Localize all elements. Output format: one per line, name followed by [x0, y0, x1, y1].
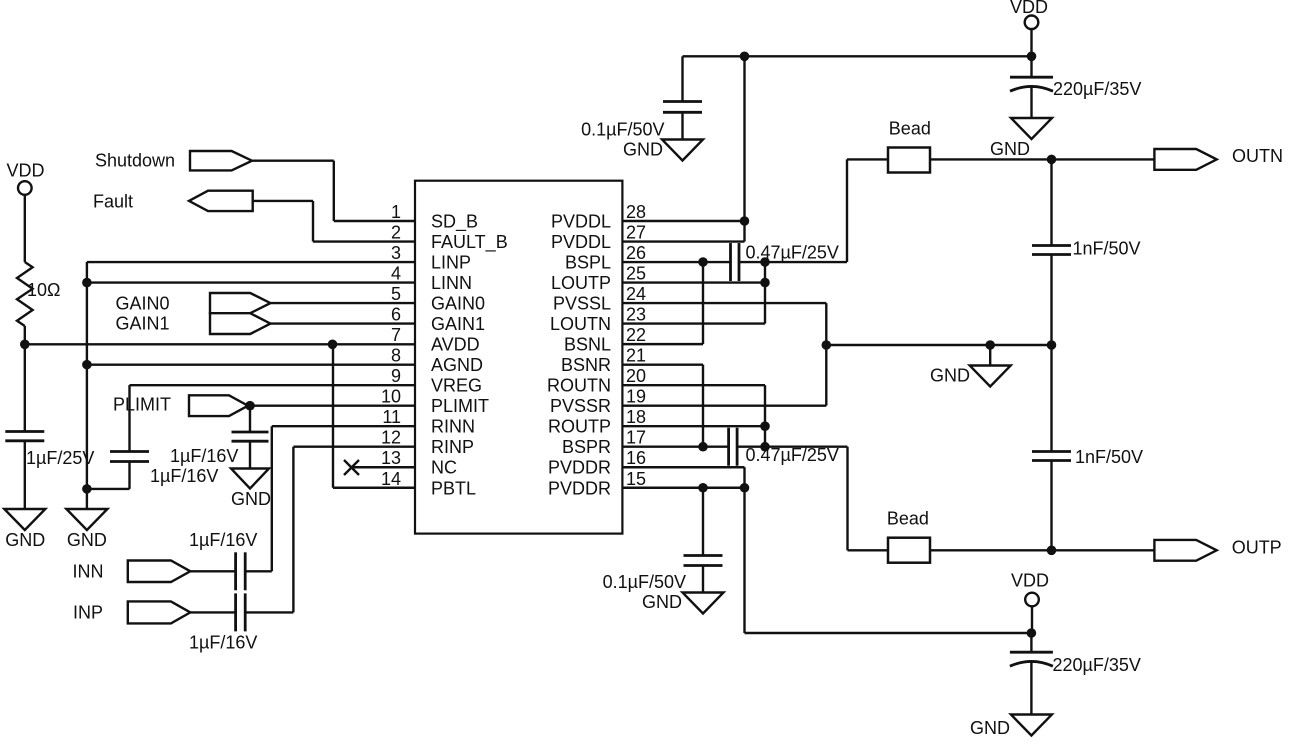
svg-text:GAIN1: GAIN1	[116, 314, 170, 334]
svg-text:PVSSR: PVSSR	[550, 396, 611, 416]
svg-text:1µF/16V: 1µF/16V	[170, 446, 238, 466]
svg-text:Fault: Fault	[93, 192, 133, 212]
svg-text:Shutdown: Shutdown	[95, 151, 175, 171]
svg-text:NC: NC	[431, 458, 457, 478]
svg-text:GAIN0: GAIN0	[116, 294, 170, 314]
svg-text:28: 28	[626, 202, 646, 222]
svg-text:11: 11	[382, 407, 401, 427]
svg-text:AVDD: AVDD	[431, 335, 480, 355]
svg-text:6: 6	[391, 305, 401, 325]
svg-text:Bead: Bead	[887, 509, 929, 529]
svg-text:VDD: VDD	[1011, 571, 1049, 591]
svg-text:1nF/50V: 1nF/50V	[1073, 239, 1141, 259]
svg-text:0.1µF/50V: 0.1µF/50V	[581, 120, 664, 140]
svg-text:1µF/16V: 1µF/16V	[150, 466, 218, 486]
svg-text:23: 23	[626, 305, 646, 325]
svg-text:INP: INP	[73, 603, 103, 623]
svg-text:22: 22	[626, 325, 646, 345]
svg-text:0.47µF/25V: 0.47µF/25V	[746, 243, 839, 263]
svg-text:GND: GND	[990, 139, 1030, 159]
svg-text:ROUTP: ROUTP	[548, 417, 611, 437]
svg-text:12: 12	[381, 428, 401, 448]
svg-text:VREG: VREG	[431, 376, 482, 396]
svg-text:PBTL: PBTL	[431, 478, 476, 498]
svg-text:1µF/16V: 1µF/16V	[189, 633, 257, 653]
svg-text:4: 4	[391, 264, 401, 284]
svg-text:PLIMIT: PLIMIT	[431, 396, 489, 416]
svg-text:GND: GND	[5, 530, 45, 550]
svg-text:16: 16	[626, 448, 646, 468]
svg-text:27: 27	[626, 223, 646, 243]
svg-text:15: 15	[626, 469, 646, 489]
svg-text:GND: GND	[970, 718, 1010, 738]
svg-text:PVSSL: PVSSL	[553, 294, 611, 314]
svg-text:14: 14	[381, 469, 401, 489]
svg-text:220µF/35V: 220µF/35V	[1053, 655, 1141, 675]
svg-text:21: 21	[626, 346, 646, 366]
svg-text:9: 9	[391, 366, 401, 386]
svg-text:17: 17	[626, 428, 646, 448]
svg-text:10Ω: 10Ω	[27, 280, 60, 300]
svg-text:BSPR: BSPR	[562, 437, 611, 457]
svg-text:GND: GND	[231, 489, 271, 509]
svg-text:GAIN1: GAIN1	[431, 314, 485, 334]
svg-text:0.47µF/25V: 0.47µF/25V	[746, 445, 839, 465]
svg-text:24: 24	[626, 284, 646, 304]
svg-text:GND: GND	[642, 592, 682, 612]
svg-text:19: 19	[626, 387, 646, 407]
svg-text:LINP: LINP	[431, 253, 471, 273]
svg-text:OUTN: OUTN	[1232, 146, 1283, 166]
svg-text:25: 25	[626, 264, 646, 284]
svg-text:AGND: AGND	[431, 355, 483, 375]
svg-text:FAULT_B: FAULT_B	[431, 232, 508, 253]
svg-text:SD_B: SD_B	[431, 212, 478, 233]
svg-text:LOUTP: LOUTP	[551, 273, 611, 293]
svg-text:PVDDL: PVDDL	[551, 212, 611, 232]
svg-text:1nF/50V: 1nF/50V	[1075, 447, 1143, 467]
svg-text:VDD: VDD	[7, 161, 45, 181]
svg-text:GAIN0: GAIN0	[431, 294, 485, 314]
svg-text:BSNL: BSNL	[564, 335, 611, 355]
svg-text:2: 2	[391, 223, 401, 243]
svg-text:3: 3	[391, 243, 401, 263]
svg-text:Bead: Bead	[889, 119, 931, 139]
svg-text:PVDDL: PVDDL	[551, 232, 611, 252]
svg-text:VDD: VDD	[1010, 0, 1048, 17]
svg-text:OUTP: OUTP	[1232, 538, 1282, 558]
svg-text:BSPL: BSPL	[565, 253, 611, 273]
svg-text:PLIMIT: PLIMIT	[113, 395, 171, 415]
svg-text:20: 20	[626, 366, 646, 386]
svg-text:13: 13	[381, 448, 401, 468]
svg-text:PVDDR: PVDDR	[548, 458, 611, 478]
svg-text:INN: INN	[73, 562, 104, 582]
svg-text:GND: GND	[623, 140, 663, 160]
svg-text:ROUTN: ROUTN	[547, 376, 611, 396]
svg-text:BSNR: BSNR	[561, 355, 611, 375]
svg-text:GND: GND	[67, 530, 107, 550]
svg-text:5: 5	[391, 284, 401, 304]
svg-text:RINN: RINN	[431, 417, 475, 437]
svg-text:8: 8	[391, 346, 401, 366]
svg-text:18: 18	[626, 407, 646, 427]
svg-text:10: 10	[381, 387, 401, 407]
svg-text:PVDDR: PVDDR	[548, 478, 611, 498]
svg-text:220µF/35V: 220µF/35V	[1053, 79, 1141, 99]
svg-text:1: 1	[391, 202, 401, 222]
svg-text:0.1µF/50V: 0.1µF/50V	[603, 572, 686, 592]
svg-text:LINN: LINN	[431, 273, 472, 293]
svg-text:7: 7	[391, 325, 401, 345]
svg-text:26: 26	[626, 243, 646, 263]
svg-text:1µF/25V: 1µF/25V	[26, 448, 94, 468]
svg-text:GND: GND	[930, 366, 970, 386]
svg-text:1µF/16V: 1µF/16V	[189, 530, 257, 550]
svg-text:LOUTN: LOUTN	[550, 314, 611, 334]
svg-text:RINP: RINP	[431, 437, 474, 457]
